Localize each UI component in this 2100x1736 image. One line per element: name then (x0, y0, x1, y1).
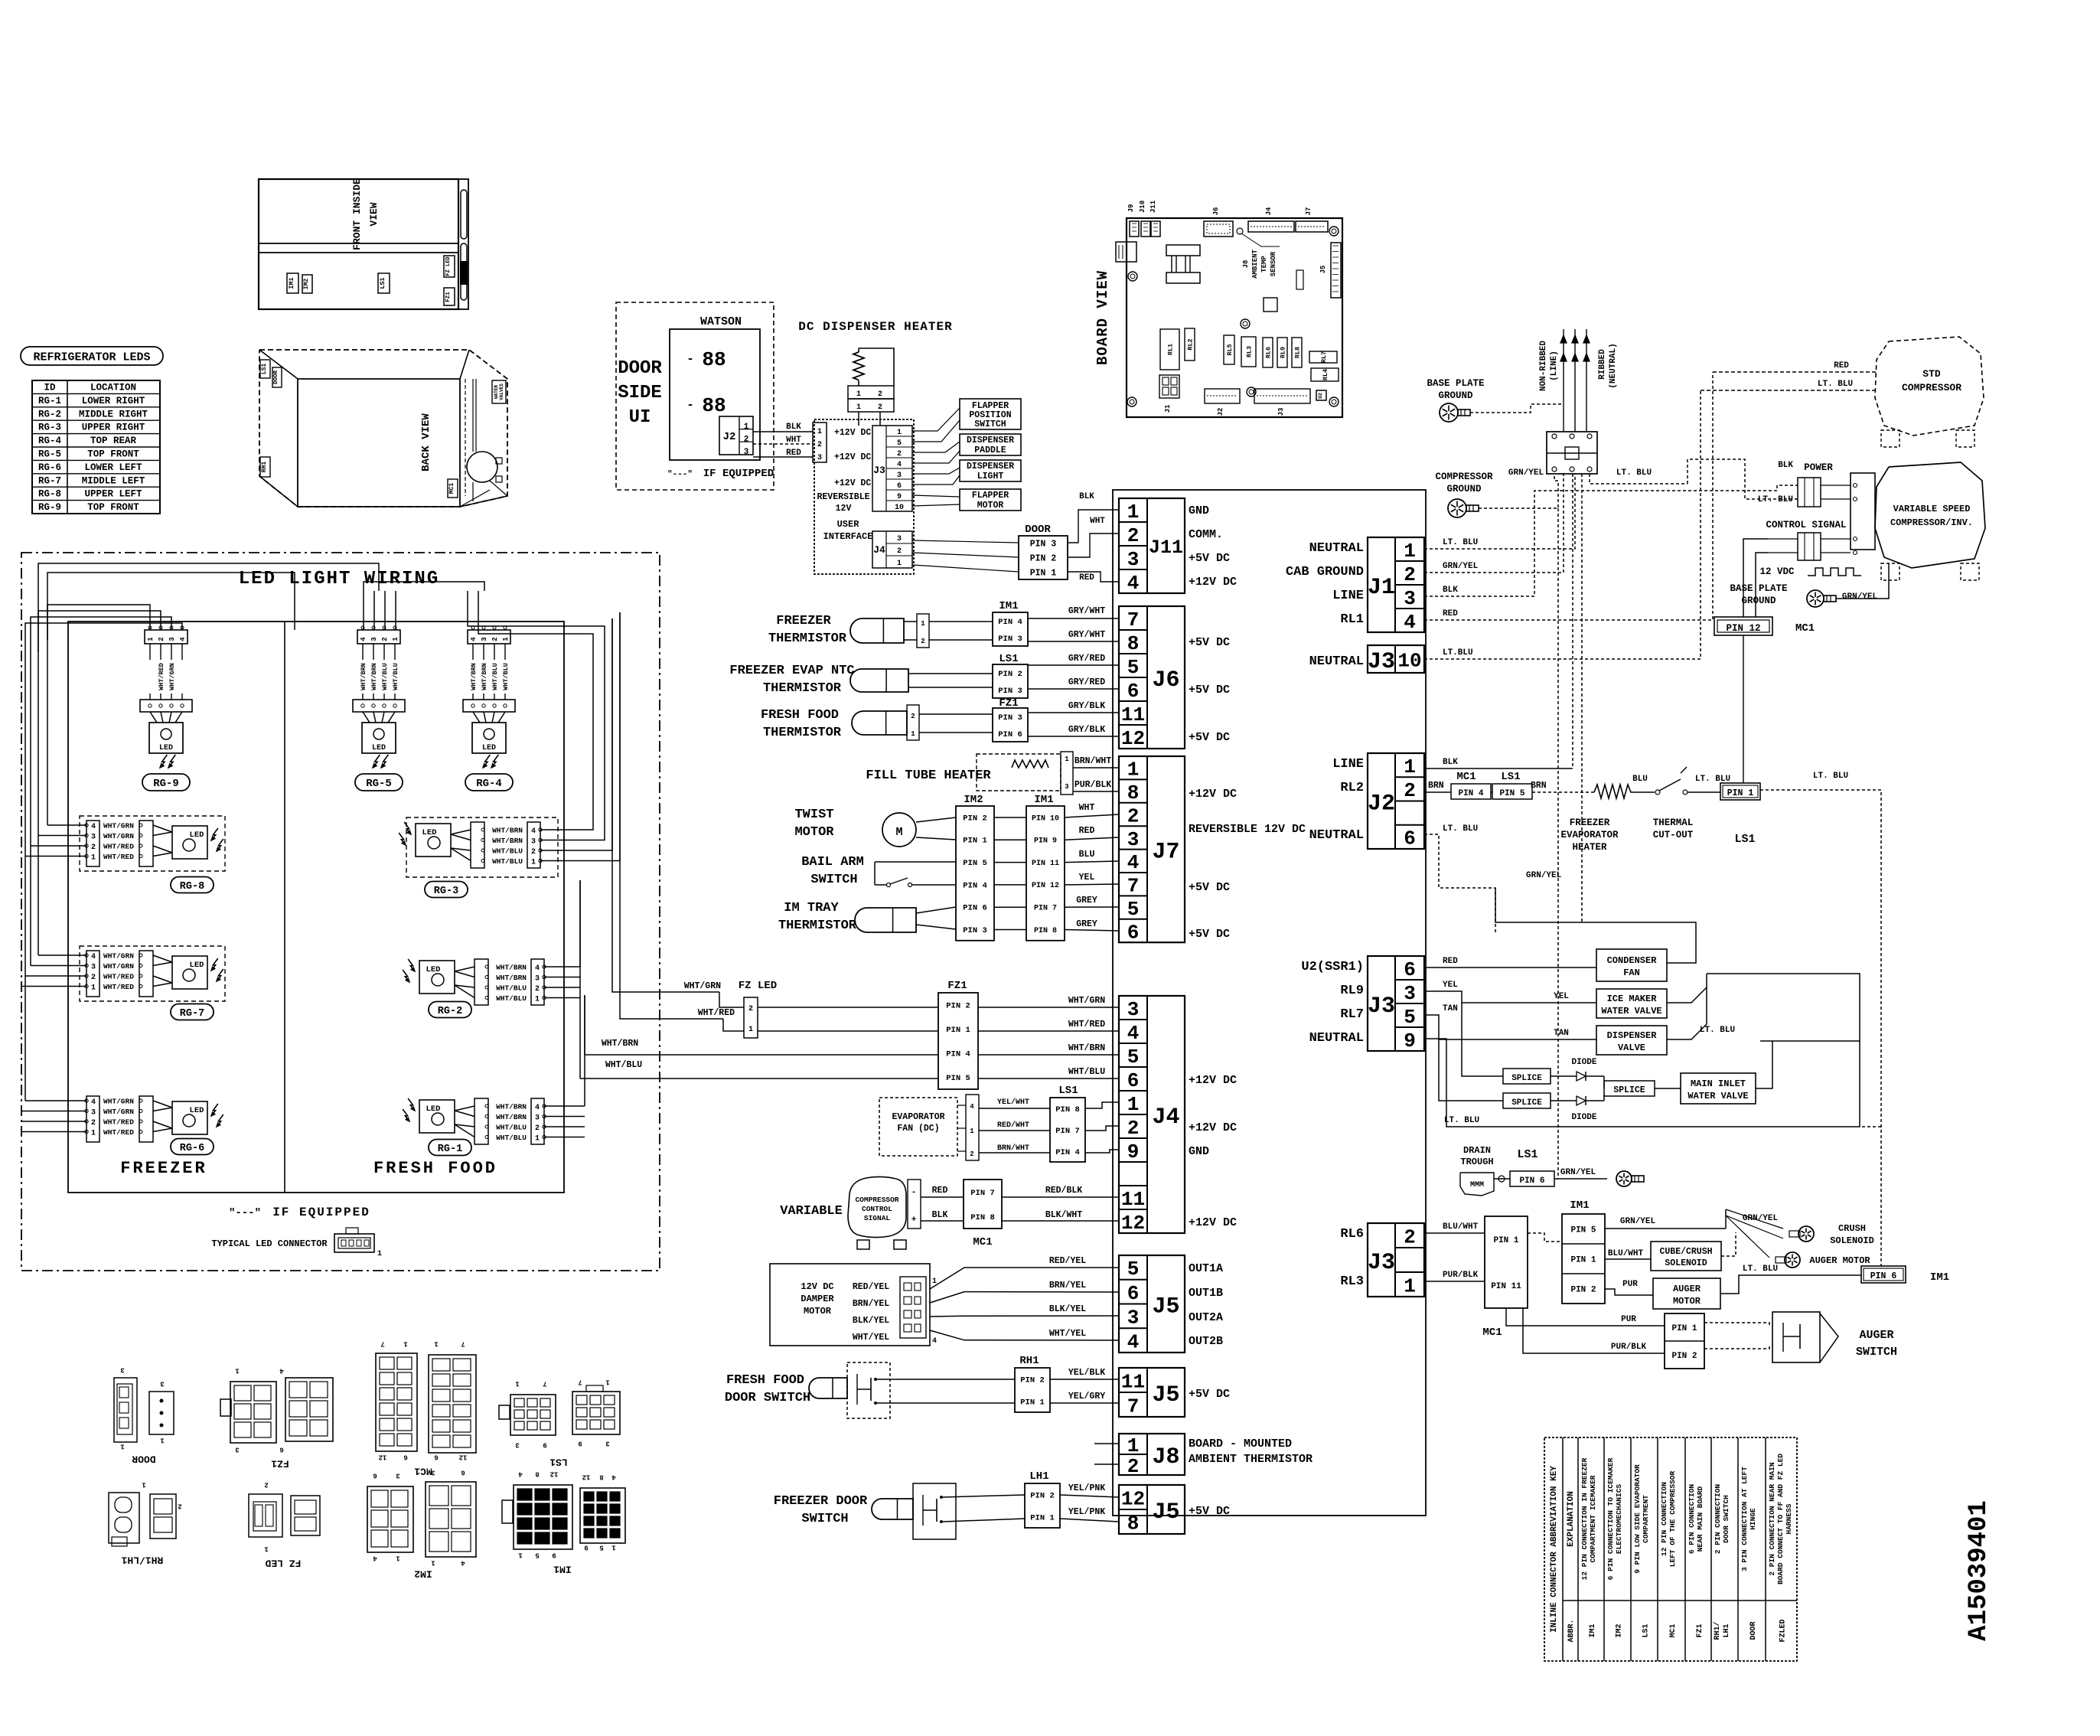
svg-text:LT. BLU: LT. BLU (1700, 1026, 1735, 1035)
svg-text:PIN 5: PIN 5 (963, 859, 987, 868)
svg-text:IM TRAY: IM TRAY (784, 901, 839, 915)
svg-text:4: 4 (179, 637, 187, 641)
svg-text:COMPARTMENT: COMPARTMENT (1642, 1495, 1650, 1543)
svg-text:BOARD - MOUNTED: BOARD - MOUNTED (1189, 1437, 1292, 1450)
svg-text:WHT/GRN: WHT/GRN (1068, 996, 1105, 1006)
svg-text:1: 1 (1404, 755, 1416, 778)
svg-text:GRY/WHT: GRY/WHT (1068, 606, 1105, 616)
svg-text:PIN 11: PIN 11 (1491, 1282, 1521, 1291)
svg-text:LS1: LS1 (261, 364, 268, 375)
connector J5 freezer switch (1119, 1485, 1185, 1534)
evaporator fan dc (879, 1098, 957, 1156)
wire lt blu to power lower (1687, 459, 1798, 499)
svg-text:J5: J5 (1319, 266, 1327, 274)
svg-text:PIN 2: PIN 2 (963, 814, 987, 823)
svg-text:4: 4 (91, 1098, 96, 1107)
svg-text:WHT/GRN: WHT/GRN (168, 663, 176, 690)
svg-text:12: 12 (459, 1454, 468, 1461)
svg-text:9: 9 (1404, 1030, 1416, 1052)
svg-text:BLK/WHT: BLK/WHT (1045, 1210, 1082, 1220)
svg-text:WHT/BLU: WHT/BLU (381, 663, 389, 690)
svg-text:RG-3: RG-3 (38, 423, 61, 433)
svg-text:WHT/BLU: WHT/BLU (502, 663, 510, 690)
svg-text:WHT/BRN: WHT/BRN (1068, 1043, 1105, 1053)
label MC1 (back view) (448, 479, 458, 498)
svg-text:VARIABLE: VARIABLE (780, 1204, 843, 1219)
svg-text:LT.BLU: LT.BLU (1443, 648, 1473, 658)
svg-text:+: + (911, 1216, 917, 1225)
svg-text:1: 1 (897, 560, 902, 568)
svg-text:3: 3 (1127, 1307, 1140, 1330)
svg-text:+5V DC: +5V DC (1189, 552, 1230, 565)
svg-text:DOOR: DOOR (618, 358, 662, 379)
svg-text:PUR/BLK: PUR/BLK (1443, 1271, 1479, 1280)
svg-text:10: 10 (1397, 649, 1421, 672)
LED RG-3 (406, 817, 558, 877)
svg-text:PIN 6: PIN 6 (998, 730, 1022, 739)
svg-text:NON-RIBBED: NON-RIBBED (1539, 341, 1548, 391)
connector FZ1 (front view) (444, 288, 455, 305)
svg-text:WATER VALVE: WATER VALVE (1601, 1006, 1661, 1016)
wire rg6 bundle (25, 1100, 86, 1101)
svg-text:LOCATION: LOCATION (90, 383, 136, 393)
svg-text:WHT/BLU: WHT/BLU (496, 994, 527, 1003)
svg-text:2: 2 (817, 441, 822, 449)
pin6 im1 box (1861, 1266, 1906, 1283)
svg-text:GRN/YEL: GRN/YEL (1560, 1168, 1596, 1177)
svg-text:GREY: GREY (1076, 919, 1097, 929)
svg-text:3: 3 (1404, 587, 1416, 610)
splice 2 (1503, 1093, 1551, 1108)
svg-text:DOOR: DOOR (1749, 1621, 1758, 1640)
svg-text:WHT/BRN: WHT/BRN (496, 964, 527, 972)
svg-text:THERMAL: THERMAL (1653, 817, 1694, 828)
svg-text:3: 3 (535, 975, 540, 984)
svg-text:RL1: RL1 (1340, 612, 1364, 627)
svg-text:MOTOR: MOTOR (804, 1306, 832, 1317)
svg-text:RG-6: RG-6 (38, 462, 61, 473)
svg-text:SOLENOID: SOLENOID (1665, 1258, 1707, 1268)
connector at user interface left (813, 423, 827, 462)
svg-text:MC1: MC1 (1456, 771, 1476, 783)
svg-text:FZ LED: FZ LED (445, 256, 452, 276)
svg-text:IM1: IM1 (1034, 794, 1053, 806)
svg-text:+12V DC: +12V DC (834, 452, 871, 462)
svg-text:LOWER RIGHT: LOWER RIGHT (82, 396, 145, 406)
wire lt blu from terminal right (1590, 474, 1687, 484)
svg-text:-: - (686, 398, 694, 412)
svg-text:FILL TUBE HEATER: FILL TUBE HEATER (866, 768, 991, 783)
svg-text:BASE PLATE: BASE PLATE (1730, 583, 1787, 594)
svg-text:BRN/WHT: BRN/WHT (1074, 756, 1111, 766)
svg-text:J5: J5 (1152, 1294, 1179, 1320)
svg-text:VALVES: VALVES (499, 383, 504, 400)
dispenser paddle box (960, 434, 1021, 455)
svg-text:LS1: LS1 (1734, 833, 1755, 846)
svg-text:10: 10 (895, 504, 904, 512)
svg-text:SPLICE: SPLICE (1613, 1085, 1645, 1095)
svg-text:RL3: RL3 (1340, 1274, 1364, 1289)
svg-text:RL6: RL6 (1265, 347, 1273, 358)
svg-text:YEL/WHT: YEL/WHT (997, 1098, 1029, 1107)
svg-text:SENSOR: SENSOR (1270, 251, 1277, 276)
svg-text:BLK: BLK (1443, 758, 1458, 767)
connector J3 (ui) (872, 426, 912, 511)
svg-text:J2: J2 (1368, 791, 1395, 817)
svg-text:PIN 7: PIN 7 (1055, 1127, 1080, 1136)
svg-text:J8: J8 (1152, 1444, 1179, 1470)
svg-text:3: 3 (370, 637, 378, 641)
svg-text:AUGER MOTOR: AUGER MOTOR (1809, 1255, 1870, 1266)
svg-text:7: 7 (1127, 609, 1140, 631)
svg-text:PIN 4: PIN 4 (1055, 1148, 1080, 1157)
svg-text:PIN 1: PIN 1 (1493, 1236, 1518, 1245)
svg-text:6: 6 (1127, 1282, 1140, 1305)
svg-text:6: 6 (1127, 680, 1140, 703)
svg-text:J3: J3 (1368, 994, 1395, 1020)
svg-text:12: 12 (550, 1470, 559, 1478)
svg-text:LED: LED (190, 830, 204, 840)
svg-text:IM1: IM1 (1930, 1271, 1949, 1284)
svg-text:AMBIENT: AMBIENT (1251, 250, 1259, 279)
svg-text:RG-5: RG-5 (38, 449, 61, 460)
svg-text:WHT/YEL: WHT/YEL (853, 1333, 889, 1343)
back view outline (259, 350, 507, 507)
svg-text:PIN 4: PIN 4 (963, 881, 987, 890)
svg-text:IM2: IM2 (1616, 1623, 1624, 1637)
svg-text:1: 1 (970, 1127, 974, 1135)
svg-text:2: 2 (1404, 563, 1416, 586)
svg-text:U2: U2 (1318, 393, 1323, 399)
svg-text:LH1: LH1 (1723, 1623, 1731, 1637)
svg-text:7: 7 (578, 1379, 582, 1386)
svg-text:J7: J7 (1152, 839, 1179, 865)
svg-text:1: 1 (1404, 1274, 1416, 1297)
svg-text:1: 1 (897, 429, 902, 437)
svg-text:+5V DC: +5V DC (1189, 1505, 1230, 1518)
svg-text:LOWER LEFT: LOWER LEFT (84, 462, 142, 473)
wires ls1 to J4 1 2 9 (1085, 1102, 1119, 1108)
svg-text:8: 8 (1127, 782, 1140, 804)
svg-text:PIN 1: PIN 1 (946, 1026, 970, 1035)
svg-text:HINGE: HINGE (1749, 1508, 1757, 1530)
svg-text:BRN: BRN (1531, 781, 1547, 791)
svg-text:+12V DC: +12V DC (1189, 576, 1237, 589)
svg-text:SWITCH: SWITCH (974, 419, 1006, 429)
svg-text:6: 6 (1127, 921, 1140, 944)
svg-text:4: 4 (1127, 1330, 1140, 1353)
svg-text:SWITCH: SWITCH (801, 1512, 848, 1526)
svg-text:9: 9 (897, 493, 902, 501)
svg-text:WHT/RED: WHT/RED (1068, 1020, 1105, 1030)
splice 1 (1503, 1069, 1551, 1084)
svg-text:WATSON: WATSON (700, 315, 742, 328)
svg-text:AUGER: AUGER (1859, 1329, 1893, 1342)
svg-text:STD: STD (1922, 368, 1941, 380)
svg-text:MC1: MC1 (414, 1466, 432, 1477)
svg-text:PIN 3: PIN 3 (998, 713, 1022, 723)
svg-text:WHT/RED: WHT/RED (103, 983, 134, 991)
svg-text:DISPENSER: DISPENSER (967, 436, 1014, 445)
svg-text:DISPENSER: DISPENSER (967, 462, 1014, 472)
svg-text:PIN 2: PIN 2 (1671, 1352, 1697, 1361)
svg-text:4: 4 (932, 1337, 937, 1346)
svg-text:PIN 12: PIN 12 (1032, 882, 1059, 890)
svg-text:2: 2 (911, 713, 915, 720)
svg-text:MC1: MC1 (448, 483, 455, 494)
svg-text:(NEUTRAL): (NEUTRAL) (1609, 343, 1618, 388)
svg-text:4: 4 (360, 637, 367, 641)
svg-text:WHT/BRN: WHT/BRN (492, 837, 523, 845)
svg-text:YEL/PNK: YEL/PNK (1068, 1483, 1105, 1493)
svg-text:1: 1 (1065, 755, 1069, 763)
connector J5 fresh food switch (1119, 1368, 1185, 1417)
svg-text:4: 4 (470, 637, 478, 641)
svg-text:AUGER: AUGER (1673, 1284, 1701, 1294)
svg-text:YEL/GRY: YEL/GRY (1068, 1392, 1105, 1402)
svg-text:HEATER: HEATER (1572, 842, 1607, 853)
svg-text:RG-2: RG-2 (38, 409, 61, 419)
wire rg2 bundle (544, 966, 580, 968)
ice maker water valve box (1596, 989, 1667, 1018)
wire fz led feed (584, 995, 585, 1055)
condenser fan box (1596, 949, 1667, 981)
svg-text:WHT/BLU: WHT/BLU (492, 857, 523, 866)
svg-text:WHT/RED: WHT/RED (103, 973, 134, 981)
svg-text:USER: USER (837, 519, 860, 530)
svg-text:PUR/BLK: PUR/BLK (1074, 780, 1111, 790)
svg-text:J2: J2 (1217, 408, 1224, 416)
svg-text:1: 1 (431, 1559, 435, 1567)
door slot bottom (461, 243, 467, 300)
svg-text:LEFT OF THE COMPRESSOR: LEFT OF THE COMPRESSOR (1668, 1470, 1677, 1567)
board edge connector left (1116, 242, 1136, 262)
svg-text:RL2: RL2 (1340, 781, 1364, 795)
svg-text:OUT1A: OUT1A (1189, 1262, 1223, 1275)
svg-text:BRN: BRN (1428, 781, 1444, 791)
svg-text:UI: UI (629, 407, 651, 428)
svg-text:PIN 7: PIN 7 (1034, 904, 1057, 912)
svg-text:SPLICE: SPLICE (1511, 1098, 1542, 1108)
svg-text:MIDDLE RIGHT: MIDDLE RIGHT (79, 409, 148, 419)
svg-text:BOARD VIEW: BOARD VIEW (1094, 270, 1111, 365)
svg-text:"---": "---" (667, 470, 693, 479)
svg-text:1: 1 (856, 390, 861, 399)
svg-text:IM1: IM1 (553, 1564, 572, 1575)
svg-text:FZ1: FZ1 (445, 292, 452, 302)
svg-text:EXPLANATION: EXPLANATION (1567, 1491, 1576, 1547)
svg-text:FAN (DC): FAN (DC) (897, 1124, 939, 1134)
svg-text:4: 4 (1127, 1022, 1140, 1045)
svg-text:PIN 2: PIN 2 (1030, 1491, 1055, 1500)
svg-text:"---": "---" (229, 1207, 261, 1219)
svg-text:6: 6 (1127, 1069, 1140, 1092)
svg-text:LED: LED (426, 1105, 441, 1114)
svg-text:WHT/BLU: WHT/BLU (605, 1060, 642, 1070)
svg-text:RL4: RL4 (1322, 369, 1329, 380)
svg-text:J2: J2 (723, 431, 736, 443)
svg-text:3: 3 (535, 1114, 540, 1123)
svg-text:RED: RED (1443, 609, 1458, 618)
svg-text:LED: LED (159, 744, 173, 752)
svg-text:FREEZER: FREEZER (120, 1159, 207, 1178)
svg-text:VARIABLE SPEED: VARIABLE SPEED (1893, 504, 1971, 514)
svg-text:4: 4 (518, 1470, 523, 1478)
svg-text:2: 2 (91, 1119, 96, 1127)
compressor inverter connector (1851, 473, 1875, 550)
std compressor (1875, 337, 1984, 436)
svg-text:WHT/RED: WHT/RED (103, 1128, 134, 1137)
svg-text:2: 2 (897, 547, 902, 556)
svg-text:3: 3 (168, 637, 176, 641)
svg-text:3: 3 (160, 1380, 164, 1388)
svg-text:GROUND: GROUND (1446, 484, 1482, 494)
auger motor ground (1785, 1252, 1800, 1268)
svg-text:RG-4: RG-4 (476, 778, 502, 790)
svg-text:1: 1 (921, 620, 925, 628)
connector LS1 (front view) (378, 273, 390, 293)
svg-text:RG-7: RG-7 (180, 1008, 204, 1020)
svg-text:7: 7 (543, 1380, 546, 1388)
svg-text:GROUND: GROUND (1438, 390, 1473, 401)
svg-text:IM1: IM1 (1589, 1623, 1597, 1637)
svg-text:GRY/BLK: GRY/BLK (1068, 725, 1105, 735)
connector J4 (ui) (872, 531, 912, 568)
svg-text:WHT/BRN: WHT/BRN (470, 663, 478, 690)
user interface box (814, 419, 914, 574)
svg-text:4: 4 (1127, 851, 1140, 874)
svg-text:INTERFACE: INTERFACE (823, 531, 873, 542)
svg-text:A15039401: A15039401 (1965, 1500, 1994, 1641)
svg-text:6: 6 (461, 1469, 465, 1477)
svg-text:1: 1 (392, 637, 399, 641)
LED RG-6 (86, 1096, 99, 1142)
svg-text:RED: RED (1079, 573, 1094, 582)
svg-text:+12V DC: +12V DC (1189, 1121, 1237, 1134)
svg-text:TROUGH: TROUGH (1460, 1157, 1493, 1167)
svg-text:WHT/GRN: WHT/GRN (103, 962, 134, 971)
svg-text:GND: GND (1189, 1145, 1209, 1158)
svg-text:CONTROL: CONTROL (862, 1205, 892, 1213)
svg-text:1: 1 (856, 403, 861, 412)
refrigerator leds title (21, 347, 163, 365)
svg-text:PIN 7: PIN 7 (970, 1189, 995, 1198)
svg-text:3: 3 (120, 1366, 124, 1374)
svg-text:LT. BLU: LT. BLU (1743, 1264, 1778, 1274)
svg-text:2: 2 (91, 844, 96, 852)
svg-text:LED: LED (190, 1106, 204, 1115)
svg-text:RL1: RL1 (1167, 344, 1175, 355)
svg-text:3: 3 (1127, 828, 1140, 851)
svg-text:FREEZER: FREEZER (1570, 817, 1610, 828)
svg-text:OUT1B: OUT1B (1189, 1287, 1223, 1300)
svg-text:6: 6 (1404, 827, 1416, 850)
svg-text:RG-1: RG-1 (38, 396, 61, 406)
svg-text:8: 8 (599, 1473, 603, 1481)
svg-text:GRN/YEL: GRN/YEL (1743, 1214, 1779, 1223)
svg-text:WHT/RED: WHT/RED (698, 1008, 735, 1018)
wire rg8 bundle (47, 824, 86, 826)
svg-text:FRESH FOOD: FRESH FOOD (726, 1373, 804, 1388)
LED light wiring outer box (21, 553, 660, 1271)
svg-text:PUR: PUR (1622, 1280, 1638, 1289)
svg-text:1: 1 (502, 637, 510, 641)
svg-text:5: 5 (599, 1544, 603, 1552)
svg-text:RL6: RL6 (1340, 1227, 1364, 1242)
svg-text:+12V DC: +12V DC (1189, 1074, 1237, 1087)
svg-text:GRN/YEL: GRN/YEL (1508, 468, 1544, 478)
svg-text:5: 5 (897, 439, 902, 448)
svg-text:INLINE CONNECTOR ABBREVIATION: INLINE CONNECTOR ABBREVIATION KEY (1550, 1466, 1559, 1633)
svg-text:WHT/GRN: WHT/GRN (103, 1108, 134, 1116)
board small ic (1264, 298, 1277, 312)
svg-text:12: 12 (379, 1454, 387, 1461)
svg-text:RG-2: RG-2 (438, 1006, 462, 1017)
svg-text:GREY: GREY (1076, 896, 1097, 906)
svg-text:1: 1 (817, 428, 822, 436)
svg-text:WHT/BLU: WHT/BLU (392, 663, 399, 690)
LED RG-1 (419, 1100, 455, 1133)
svg-text:DIODE: DIODE (1571, 1058, 1596, 1067)
svg-text:4: 4 (461, 1559, 465, 1567)
svg-text:GRN/YEL: GRN/YEL (1443, 562, 1479, 571)
connector J8 main (1119, 1434, 1185, 1475)
svg-text:LT. BLU: LT. BLU (1443, 538, 1478, 547)
svg-text:5: 5 (1127, 898, 1140, 921)
svg-text:SWITCH: SWITCH (810, 873, 857, 887)
svg-text:RED: RED (1834, 361, 1849, 370)
svg-text:DOOR: DOOR (132, 1454, 155, 1465)
svg-text:3: 3 (91, 1109, 96, 1118)
svg-text:COMPRESSOR: COMPRESSOR (1435, 472, 1493, 482)
front inside view outline (259, 179, 458, 309)
svg-text:PIN 3: PIN 3 (963, 926, 987, 935)
svg-text:+5V DC: +5V DC (1189, 1388, 1230, 1401)
svg-text:GROUND: GROUND (1741, 596, 1776, 606)
svg-text:NEUTRAL: NEUTRAL (1309, 1031, 1364, 1046)
svg-text:PIN 2: PIN 2 (1020, 1375, 1045, 1385)
svg-text:+5V DC: +5V DC (1189, 881, 1230, 894)
svg-text:TYPICAL LED CONNECTOR: TYPICAL LED CONNECTOR (211, 1238, 328, 1249)
terminal block (1547, 432, 1597, 474)
svg-text:AMBIENT THERMISTOR: AMBIENT THERMISTOR (1189, 1453, 1312, 1466)
wires J8 ambient (1094, 1443, 1119, 1444)
svg-text:FZ1: FZ1 (1696, 1623, 1704, 1637)
svg-text:PIN 3: PIN 3 (1030, 540, 1057, 550)
svg-text:8: 8 (1127, 1512, 1140, 1535)
svg-text:BLU/WHT: BLU/WHT (1608, 1249, 1644, 1258)
svg-text:3: 3 (1404, 982, 1416, 1005)
svg-text:RG-9: RG-9 (153, 778, 179, 790)
svg-text:1: 1 (748, 1026, 753, 1034)
svg-text:YEL/PNK: YEL/PNK (1068, 1507, 1105, 1517)
splice 3 (1604, 1081, 1655, 1096)
svg-text:WHT/BLU: WHT/BLU (496, 1124, 527, 1132)
flapper motor box (960, 489, 1021, 511)
svg-text:DOOR SWITCH: DOOR SWITCH (1722, 1495, 1730, 1543)
label RH1 (back view) (260, 457, 270, 477)
svg-text:OUT2B: OUT2B (1189, 1335, 1223, 1348)
svg-text:1: 1 (531, 859, 536, 867)
LED RG-9 (145, 630, 187, 644)
wire rg7 bundle (38, 954, 86, 956)
svg-text:PIN 11: PIN 11 (1032, 860, 1059, 868)
svg-text:BLK/YEL: BLK/YEL (1049, 1304, 1086, 1314)
svg-text:J1: J1 (1164, 404, 1172, 413)
svg-text:COMPRESSOR: COMPRESSOR (855, 1196, 898, 1204)
svg-text:CRUSH: CRUSH (1838, 1223, 1866, 1234)
svg-text:DISPENSER: DISPENSER (1607, 1030, 1658, 1041)
